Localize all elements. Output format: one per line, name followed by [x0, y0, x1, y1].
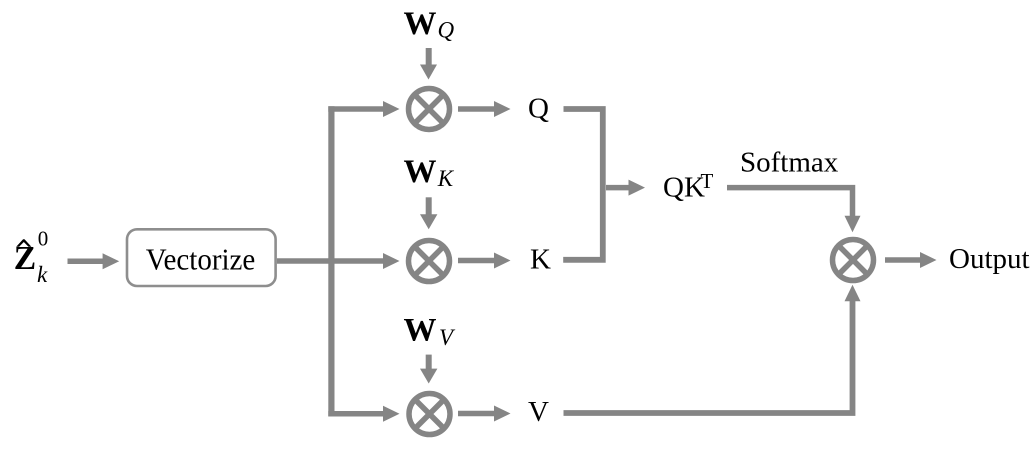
wire softmax line to final multiplier	[727, 188, 861, 233]
svg-text:W: W	[404, 154, 437, 190]
wire final multiplier to output	[885, 252, 937, 268]
wire multiplier to Q label	[458, 101, 511, 117]
label W_V	[404, 313, 457, 351]
wire branch to bottom multiplier	[328, 406, 399, 422]
wire box to middle multiplier	[277, 253, 400, 269]
wire multiplier to K label	[458, 253, 511, 269]
wire V to final multiplier	[564, 285, 861, 413]
svg-text:K: K	[437, 166, 455, 191]
svg-text:Vectorize: Vectorize	[146, 242, 256, 277]
label W_Q	[404, 6, 455, 43]
svg-text:Q: Q	[438, 18, 455, 43]
svg-text:V: V	[528, 396, 549, 428]
svg-text:Output: Output	[949, 243, 1030, 275]
multiplier node Q	[409, 89, 450, 130]
label W_K	[404, 154, 455, 191]
svg-text:K: K	[530, 244, 551, 276]
svg-text:0: 0	[38, 227, 49, 251]
wire input arrow	[68, 253, 120, 269]
multiplier node K	[409, 241, 450, 282]
wire branch vertical	[328, 106, 334, 416]
wire Q to join corner	[563, 109, 603, 260]
label QKT	[663, 169, 714, 204]
wire join to QKT arrow	[606, 180, 645, 196]
node Z input label	[14, 227, 49, 288]
svg-text:Q: Q	[528, 93, 549, 125]
svg-text:QK: QK	[663, 172, 705, 204]
svg-text:Softmax: Softmax	[740, 146, 839, 178]
svg-text:V: V	[439, 325, 456, 350]
multiplier node output	[833, 240, 874, 281]
wire multiplier to V label	[458, 406, 511, 422]
svg-text:k: k	[37, 262, 48, 287]
wire W_K down arrow	[420, 197, 437, 229]
svg-text:T: T	[701, 169, 714, 193]
svg-text:Z: Z	[14, 240, 36, 277]
Vectorize box	[127, 229, 276, 286]
wire W_V down arrow	[420, 355, 437, 384]
svg-text:W: W	[404, 313, 437, 349]
wire branch to top multiplier	[328, 101, 399, 117]
svg-text:W: W	[404, 6, 437, 42]
wire W_Q down arrow	[420, 48, 437, 80]
multiplier node V	[409, 394, 450, 435]
